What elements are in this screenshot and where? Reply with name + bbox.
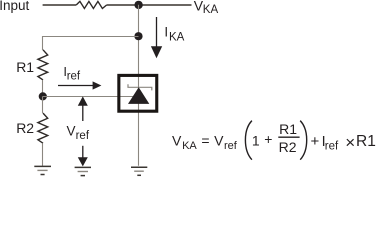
- svg-text:R2: R2: [279, 139, 297, 155]
- svg-text:I: I: [164, 24, 168, 39]
- arrow Iref: [58, 85, 93, 87]
- wire ref node to device: [43, 96, 134, 98]
- svg-text:ref: ref: [76, 130, 90, 142]
- svg-text:R1: R1: [16, 59, 34, 75]
- arrow Vref down: [82, 146, 84, 158]
- wire cathode vertical: [138, 5, 140, 166]
- svg-text:+: +: [264, 131, 272, 147]
- arrow Vref up: [82, 104, 84, 121]
- svg-text:KA: KA: [169, 32, 185, 44]
- wire Input to R: [43, 4, 77, 6]
- svg-text:+: +: [311, 133, 320, 150]
- svg-text:KA: KA: [203, 4, 219, 16]
- big right paren: [300, 121, 307, 160]
- svg-text:ref: ref: [224, 140, 238, 152]
- wire R to VKA: [107, 4, 192, 6]
- wire R2 to ground: [42, 143, 44, 166]
- svg-text:R1: R1: [356, 133, 376, 150]
- ground (device anode): [131, 167, 147, 175]
- formula VKA = Vref (1 + R1/R2) + Iref x R1: [172, 121, 376, 160]
- junction ref node: [39, 92, 47, 100]
- resistor R2: [38, 113, 48, 143]
- svg-text:R2: R2: [16, 120, 34, 136]
- svg-text:ref: ref: [67, 71, 81, 83]
- svg-text:Input: Input: [0, 0, 29, 13]
- svg-text:KA: KA: [182, 140, 197, 152]
- wire node to R1 top: [43, 37, 139, 51]
- ground (R2): [34, 166, 51, 174]
- svg-text:V: V: [67, 124, 76, 139]
- svg-text:1: 1: [252, 133, 260, 149]
- svg-text:V: V: [214, 133, 224, 149]
- junction feedback node: [134, 32, 142, 40]
- junction top node: [134, 1, 142, 9]
- zener anode triangle: [128, 87, 149, 104]
- wire R1R2 node to R2: [42, 96, 44, 113]
- op-device TL431 body: [119, 75, 157, 111]
- wire R1 to node: [42, 80, 44, 94]
- svg-text:R1: R1: [279, 121, 297, 137]
- svg-text:×: ×: [345, 133, 355, 152]
- resistor (input series): [76, 1, 106, 8]
- svg-text:=: =: [201, 133, 209, 149]
- svg-text:ref: ref: [325, 141, 339, 153]
- zener cathode bar: [128, 84, 152, 90]
- arrow IKA: [156, 17, 158, 48]
- resistor R1: [38, 50, 48, 80]
- ground (Vref reference): [75, 167, 91, 175]
- svg-text:V: V: [172, 133, 182, 149]
- big left paren: [245, 121, 252, 160]
